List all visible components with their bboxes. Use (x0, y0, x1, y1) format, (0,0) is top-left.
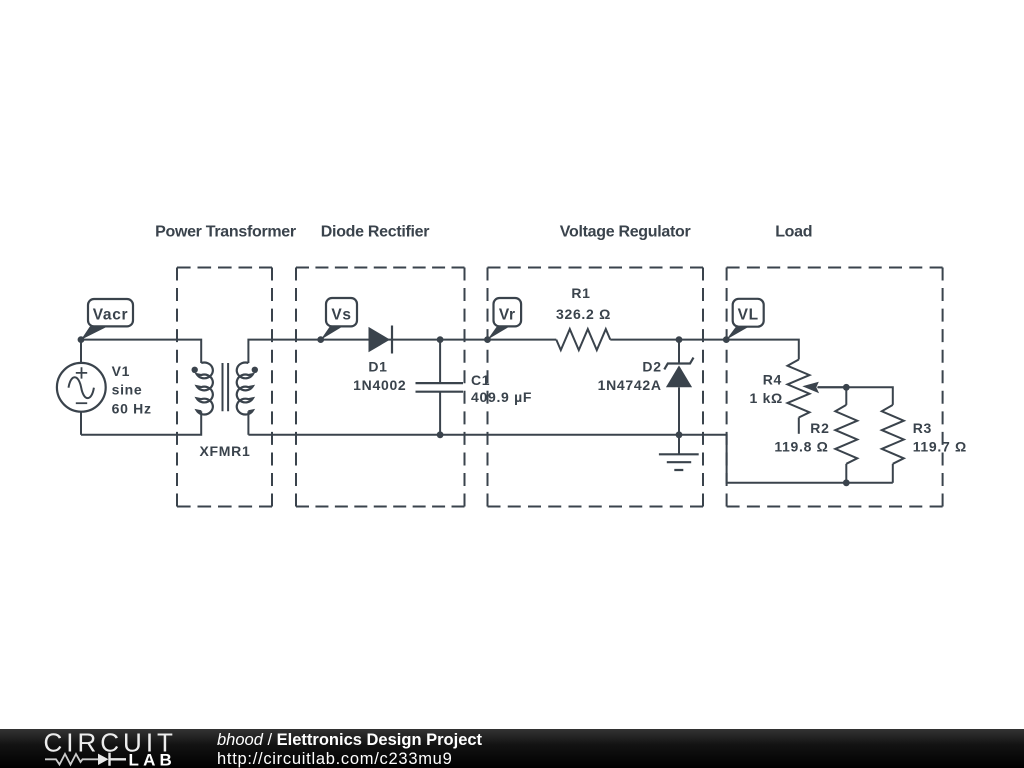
node dot D2 top (676, 336, 683, 343)
callout VL (726, 299, 763, 340)
svg-text:sine: sine (112, 382, 143, 398)
svg-text:V1: V1 (112, 363, 131, 379)
diode D1 (369, 327, 391, 352)
wire V1 bottom lead (80, 412, 82, 435)
wire wiper to R3 top (815, 387, 893, 405)
wire C1 top lead (439, 340, 441, 384)
svg-text:D1: D1 (368, 358, 387, 374)
wire transformer secondary bottom lead (247, 411, 249, 435)
wire bottom rail (248, 435, 892, 483)
svg-text:1 kΩ: 1 kΩ (750, 390, 784, 406)
wire ground stem (678, 435, 680, 455)
voltage source V1 (57, 363, 106, 412)
svg-text:1N4002: 1N4002 (353, 377, 406, 393)
svg-text:D2: D2 (642, 359, 661, 375)
capacitor C1 (416, 383, 464, 392)
svg-text:R3: R3 (913, 420, 932, 436)
box Power Transformer (177, 268, 272, 507)
node dot wiper (843, 384, 850, 391)
node dot D2 bottom (676, 431, 683, 438)
logo resistor-diode glyph (45, 753, 126, 766)
svg-text:http://circuitlab.com/c233mu9: http://circuitlab.com/c233mu9 (217, 750, 452, 768)
svg-text:C1: C1 (471, 372, 490, 388)
svg-text:R2: R2 (810, 420, 829, 436)
wire transformer primary bottom lead (81, 411, 201, 435)
node dot Vr (484, 336, 491, 343)
svg-text:R1: R1 (571, 285, 590, 301)
svg-text:326.2 Ω: 326.2 Ω (556, 306, 611, 322)
wire C1 bottom lead (439, 392, 441, 435)
wire R2 top lead (845, 387, 847, 405)
transformer phase dot right (252, 367, 258, 373)
wire top rail right (610, 340, 799, 360)
node dot load bottom (843, 479, 850, 486)
svg-text:Vs: Vs (331, 306, 351, 323)
box Voltage Regulator (488, 268, 704, 507)
node dot C1 top (437, 336, 444, 343)
wire top rail middle (248, 340, 556, 363)
potentiometer R4 (788, 360, 810, 418)
svg-text:VL: VL (738, 306, 759, 323)
callout Vs (321, 298, 357, 340)
svg-text:409.9 µF: 409.9 µF (471, 389, 532, 405)
node dot C1 bottom (437, 431, 444, 438)
svg-text:Power Transformer: Power Transformer (155, 224, 296, 241)
callout Vacr (81, 299, 133, 340)
box Load (727, 268, 943, 507)
resistor R1 (556, 329, 610, 350)
R4 wiper arrow (816, 386, 846, 388)
zener diode D2 (666, 365, 692, 387)
wire D2 bottom lead (678, 387, 680, 435)
wire R3 bottom lead (892, 464, 894, 483)
svg-text:60 Hz: 60 Hz (112, 400, 152, 416)
svg-text:bhood / Elettronics Design Pro: bhood / Elettronics Design Project (217, 731, 483, 749)
svg-text:XFMR1: XFMR1 (200, 443, 251, 459)
wire top rail left (Vacr to transformer) (81, 340, 201, 363)
svg-text:119.8 Ω: 119.8 Ω (774, 439, 828, 455)
svg-text:Vr: Vr (499, 306, 516, 323)
transformer phase dot left (192, 367, 198, 373)
svg-text:LAB: LAB (129, 750, 177, 768)
resistor R3 (882, 405, 904, 464)
node dot VL (723, 336, 730, 343)
resistor R2 (835, 405, 857, 464)
svg-text:Diode Rectifier: Diode Rectifier (321, 224, 429, 241)
wire D2 top lead (678, 340, 680, 364)
wire R4 bottom lead (798, 418, 800, 434)
node dot Vs (317, 336, 324, 343)
ground (659, 454, 699, 470)
wire V1 top lead (80, 340, 82, 363)
callout Vr (488, 298, 522, 340)
wire R2 bottom lead (845, 464, 847, 483)
svg-text:119.7 Ω: 119.7 Ω (913, 439, 967, 455)
transformer XFMR1 (197, 362, 253, 414)
svg-text:1N4742A: 1N4742A (598, 377, 662, 393)
svg-text:R4: R4 (763, 372, 782, 388)
svg-text:Voltage Regulator: Voltage Regulator (560, 224, 691, 241)
box Diode Rectifier (296, 268, 465, 507)
svg-text:Vacr: Vacr (93, 306, 129, 323)
node dot Vacr (78, 336, 85, 343)
svg-text:Load: Load (775, 224, 812, 241)
